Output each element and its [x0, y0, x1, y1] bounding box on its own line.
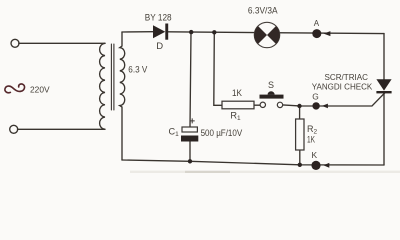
resistor R2 box — [296, 119, 304, 150]
svg-text:G: G — [312, 92, 319, 102]
wire node junction down to R1 — [214, 32, 222, 105]
wire capacitor to bottom rail — [189, 142, 191, 162]
wire junction down to R2 — [299, 106, 301, 119]
svg-text:6.3V/3A: 6.3V/3A — [248, 6, 278, 16]
AC source symbol 220V — [5, 84, 25, 93]
terminal T1 (220V input top) — [11, 39, 19, 47]
lamp LP1 6.3V/3A — [254, 22, 279, 47]
transformer TR1 core — [110, 44, 112, 110]
node junction dot (G branch) — [297, 104, 301, 108]
wire R2 to bottom rail — [299, 150, 301, 165]
svg-text:D: D — [156, 41, 163, 52]
wire bottom rail — [122, 160, 384, 165]
wire node G line with gate diagonal — [300, 93, 386, 106]
wire switch to node G junction — [283, 105, 300, 106]
svg-text:1K: 1K — [232, 88, 243, 98]
svg-text:A: A — [314, 19, 320, 28]
resistor R1 box — [222, 101, 254, 109]
terminal T2 (220V input bottom) — [10, 125, 18, 133]
svg-text:6.3 V: 6.3 V — [128, 65, 148, 75]
svg-text:S: S — [268, 80, 274, 90]
SCR/TRIAC device — [376, 79, 391, 93]
scan smudge bottom — [130, 171, 400, 173]
wire R1 to switch contact — [254, 104, 260, 106]
svg-text:220V: 220V — [30, 84, 50, 94]
terminal A dot — [312, 29, 321, 38]
terminal G dot — [312, 102, 319, 109]
arrow into A — [324, 31, 331, 36]
node junction dot (R1 branch) — [212, 30, 216, 34]
switch S pushbutton — [260, 91, 284, 107]
diode D (BY 128) — [153, 24, 168, 40]
wire node junction to capacitor — [190, 32, 191, 127]
svg-text:K: K — [312, 150, 318, 160]
wire top rail after diode — [168, 32, 384, 34]
svg-text:BY 128: BY 128 — [145, 12, 172, 23]
arrow into K — [323, 163, 329, 168]
wire top rail — [122, 31, 153, 33]
wire — [19, 42, 105, 44]
svg-text:1K: 1K — [307, 134, 315, 144]
terminal K dot — [311, 161, 320, 170]
arrow into G — [322, 104, 328, 109]
svg-text:500 µF/10V: 500 µF/10V — [201, 128, 243, 138]
node junction dot (capacitor bottom) — [188, 159, 192, 163]
capacitor C1 electrolytic — [181, 118, 198, 141]
transformer TR1 secondary winding — [120, 32, 125, 160]
node junction dot (R2 bottom) — [298, 163, 302, 167]
svg-text:YANGDI CHECK: YANGDI CHECK — [312, 81, 373, 91]
wire right side down to SCR anode — [383, 34, 385, 80]
transformer TR1 primary winding — [100, 43, 105, 129]
node junction dot (cap branch) — [189, 30, 193, 34]
wire right side below SCR cathode — [383, 93, 385, 165]
wire — [18, 128, 105, 130]
